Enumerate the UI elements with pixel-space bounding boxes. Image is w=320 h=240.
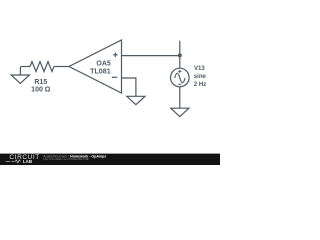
svg-text:100 Ω: 100 Ω [31,86,51,93]
ground (left, at R15 input) [11,67,29,83]
svg-text:http://circuitlab.com/c/h26u9b: http://circuitlab.com/c/h26u9bb/7d8b [43,157,89,161]
node A junction dot [178,53,182,57]
label V13 [194,65,205,72]
resistor R15 [30,62,54,72]
ground (at op-amp - input) [127,96,145,104]
wire V13 bottom to ground [179,87,181,108]
label sine [194,73,207,80]
svg-text:V13: V13 [194,65,205,72]
svg-text:LAB: LAB [23,159,33,164]
watermark bar [0,154,220,165]
watermark attribution line 2 [43,157,89,161]
op-amp OA5 (TL081) [69,40,122,93]
label 2 Hz [194,81,206,88]
ground (below V13) [171,108,189,116]
svg-text:2 Hz: 2 Hz [194,81,206,88]
label TL081 [90,68,111,76]
wire node A to V13 top [179,56,181,69]
voltage source V13 [171,68,190,87]
svg-text:R15: R15 [34,79,47,86]
wire stub above node A [179,41,181,56]
watermark attribution line 1 [43,154,106,158]
wire op-amp + input to node A [122,55,180,57]
wire ground to R15 [20,66,30,68]
svg-text:OA5: OA5 [96,60,111,67]
svg-text:sine: sine [194,73,207,80]
watermark logo CIRCUIT [9,154,39,161]
wire R15 to op-amp output [54,66,69,68]
svg-text:TL081: TL081 [90,68,111,76]
watermark logo wire motif + LAB [6,159,33,164]
wire op-amp - input to ground [122,78,136,96]
